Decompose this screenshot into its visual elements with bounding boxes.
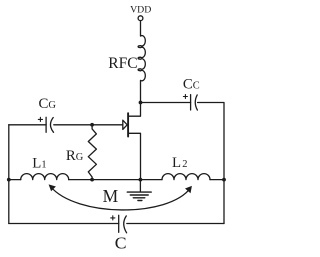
- node source / ground junction: [139, 178, 143, 182]
- svg-text:VDD: VDD: [130, 5, 151, 16]
- resistor RG: [88, 125, 96, 180]
- capacitor CG: [46, 117, 53, 132]
- wire L2 to right rail: [210, 179, 224, 181]
- wire bottom rail right of C: [127, 223, 224, 225]
- capacitor C: [119, 215, 127, 233]
- wire VDD circle to RFC: [140, 21, 142, 36]
- svg-text:M: M: [103, 186, 119, 206]
- svg-text:CC: CC: [183, 77, 200, 93]
- svg-text:C: C: [115, 233, 127, 252]
- wire gate from left edge to CG plate: [9, 124, 46, 126]
- transistor Q1 JFET channel bar: [127, 113, 129, 136]
- wire RFC to drain node: [140, 81, 142, 103]
- svg-text:CG: CG: [39, 96, 57, 112]
- arrowhead left (to L1): [49, 184, 56, 191]
- wire left rail to L1: [9, 179, 21, 181]
- wire drain node to Cc left plate: [141, 102, 191, 104]
- inductor L2: [162, 174, 210, 180]
- wire bottom rail left of C: [9, 223, 119, 225]
- wire L1 to ground node: [69, 179, 162, 181]
- node RG bottom junction: [90, 178, 94, 182]
- svg-text:L1: L1: [32, 155, 46, 171]
- transistor Q1 drain lead: [129, 103, 141, 117]
- wire left rail vertical: [8, 125, 10, 224]
- transistor Q1 gate arrow: [123, 120, 127, 129]
- transistor Q1 source lead: [129, 133, 141, 179]
- plus sign of Cc: [183, 95, 187, 99]
- plus sign of CG: [38, 117, 42, 121]
- node left rail junction: [7, 178, 11, 182]
- svg-text:RG: RG: [66, 148, 84, 164]
- ground: [127, 180, 151, 201]
- arrowhead right (to L2): [185, 186, 192, 193]
- node gate / RG junction: [90, 123, 94, 127]
- inductor RFC (coil): [138, 36, 145, 81]
- node drain junction: [139, 101, 143, 105]
- wire CG to gate arrow: [54, 124, 123, 126]
- wire Cc to right rail: [198, 103, 224, 180]
- plus sign of C: [111, 216, 115, 220]
- svg-text:L2: L2: [172, 155, 187, 171]
- mutual inductance coupling curve: [51, 187, 191, 210]
- node right rail junction: [222, 178, 226, 182]
- capacitor Cc: [191, 95, 198, 110]
- wire right rail lower: [223, 180, 225, 224]
- VDD terminal circle: [138, 16, 143, 21]
- svg-text:RFC: RFC: [108, 55, 137, 72]
- inductor L1: [21, 174, 69, 180]
